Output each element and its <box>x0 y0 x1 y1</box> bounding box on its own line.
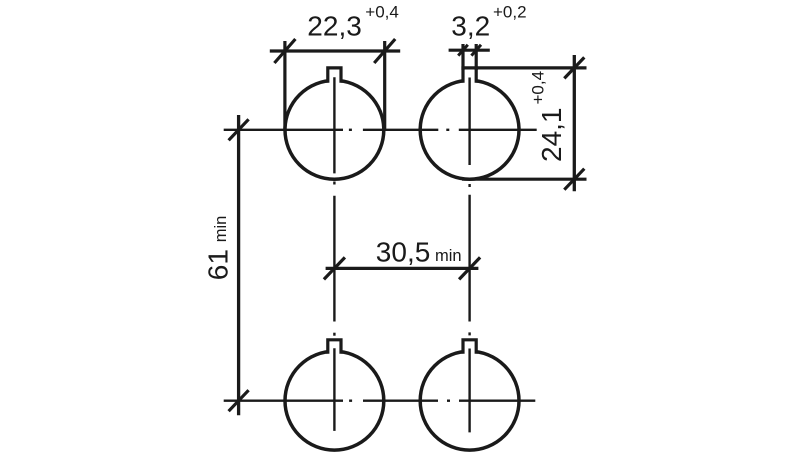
dimension 61 line <box>237 115 240 415</box>
horizontal centerline top row (dash-dot) <box>224 129 537 131</box>
keyway notch bottom-left <box>328 340 341 354</box>
keyway notch top-left <box>328 68 341 83</box>
hole circle top-right <box>420 80 519 179</box>
dimension 24,1 extension line top <box>476 66 586 69</box>
svg-text:min: min <box>212 216 230 243</box>
dimension 24,1 extension line bottom <box>462 178 587 181</box>
vertical centerline right column (dash-dot) <box>468 78 470 433</box>
label min for 61 (rotated) <box>212 216 230 243</box>
dimension 22,3 extension line left <box>283 41 286 130</box>
dimension 61 tick bottom <box>229 390 249 411</box>
dimension 24,1 line <box>573 55 576 191</box>
label 24,1 (rotated) <box>536 108 567 163</box>
dimension 22,3 tick right <box>374 39 395 63</box>
horizontal centerline bottom row (dash-dot) <box>224 400 536 402</box>
hole circle top-left <box>285 80 384 179</box>
svg-text:30,5: 30,5 <box>376 237 431 268</box>
svg-text:61: 61 <box>203 249 234 280</box>
keyway notch top-right <box>463 68 476 83</box>
label 30,5 <box>376 237 431 268</box>
svg-text:22,3: 22,3 <box>307 11 362 42</box>
label tolerance +0,4 right (rotated) <box>529 71 548 105</box>
dimension 22,3 extension line right <box>383 41 386 130</box>
dimension 22,3 line <box>270 49 400 52</box>
svg-text:+0,2: +0,2 <box>493 3 527 22</box>
label min for 30,5 <box>435 247 462 265</box>
hole circle bottom-right <box>420 351 519 450</box>
svg-text:24,1: 24,1 <box>536 108 567 163</box>
dimension 3,2 tick left <box>458 45 468 56</box>
label tolerance +0,2 <box>493 3 527 22</box>
svg-text:3,2: 3,2 <box>451 11 490 42</box>
label 22,3 <box>307 11 362 42</box>
dimension 3,2 extension line left <box>461 44 464 70</box>
vertical centerline left column (dash-dot) <box>333 77 335 431</box>
dimension 61 tick top <box>229 119 249 140</box>
keyway notch bottom-right <box>463 340 476 354</box>
label 61 (rotated) <box>203 249 234 280</box>
dimension 3,2 extension line right <box>475 44 478 70</box>
dimension 22,3 tick left <box>274 39 295 63</box>
dimension 30,5 tick right <box>459 257 480 279</box>
dimension 30,5 tick left <box>324 257 345 279</box>
hole circle bottom-left <box>285 351 384 450</box>
dimension 24,1 tick bottom <box>564 169 584 190</box>
svg-text:+0,4: +0,4 <box>365 3 399 22</box>
svg-text:+0,4: +0,4 <box>529 71 548 105</box>
label tolerance +0,4 top <box>365 3 399 22</box>
dimension 30,5 line <box>326 267 479 270</box>
dimension 3,2 tick right <box>471 45 481 56</box>
dimension 24,1 tick top <box>564 57 584 78</box>
dimension 3,2 line <box>449 49 490 52</box>
svg-text:min: min <box>435 247 462 265</box>
label 3,2 <box>451 11 490 42</box>
